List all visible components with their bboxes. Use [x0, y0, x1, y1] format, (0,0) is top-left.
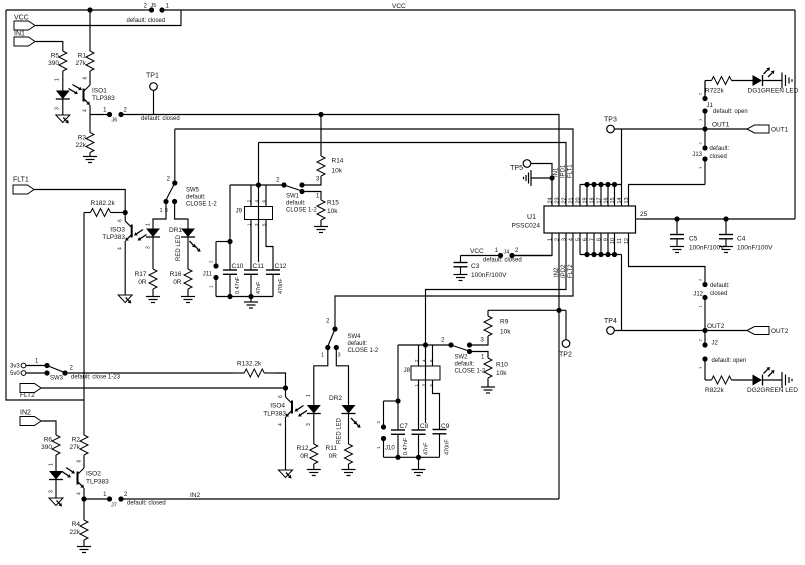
ground R15: [314, 221, 328, 233]
ground return ISO1 LED: [56, 115, 70, 124]
svg-text:TP3: TP3: [604, 117, 617, 124]
wire pin12 to J12: [629, 233, 706, 285]
svg-text:RED LED: RED LED: [176, 234, 182, 261]
wire emitter to J6: [90, 114, 108, 116]
wire pin13: [629, 185, 706, 207]
svg-text:3: 3: [146, 246, 152, 249]
jumper J4: [483, 248, 522, 264]
wire ISO1 emitter down: [89, 105, 91, 115]
pin 1 label ISO1 LED: [55, 78, 61, 81]
svg-text:IN1: IN1: [14, 31, 25, 38]
svg-text:15: 15: [610, 197, 616, 203]
svg-text:R6: R6: [44, 437, 53, 444]
svg-text:12: 12: [624, 238, 630, 244]
connector J10: [376, 401, 398, 457]
svg-text:11: 11: [617, 238, 623, 244]
label net OUT1: [712, 122, 730, 129]
svg-text:DR2: DR2: [329, 395, 342, 402]
svg-text:TLP383: TLP383: [102, 234, 125, 241]
svg-text:2: 2: [441, 338, 445, 344]
wire FLT2 tag to ISO4: [41, 387, 286, 389]
opto light arrows ISO4: [295, 406, 308, 417]
jumper J7: [103, 492, 166, 509]
svg-text:R11: R11: [326, 445, 338, 452]
ground R17: [146, 289, 160, 303]
svg-text:2: 2: [515, 248, 519, 254]
transistor ISO2 phototransistor: [77, 460, 85, 496]
wire VCC tag to top rail: [35, 10, 181, 26]
svg-text:C5: C5: [689, 236, 698, 243]
label net IN1: [554, 167, 560, 177]
jumper J2: [698, 331, 747, 370]
wire J8 pin1 to C8: [418, 380, 420, 430]
svg-text:23: 23: [555, 197, 561, 203]
svg-text:19: 19: [583, 197, 589, 203]
svg-text:CLOSE 1-2: CLOSE 1-2: [348, 348, 379, 354]
svg-text:C4: C4: [737, 236, 746, 243]
svg-text:J5: J5: [151, 3, 157, 9]
svg-text:default:: default:: [455, 362, 475, 368]
svg-text:DG1GREEN LED: DG1GREEN LED: [748, 88, 799, 95]
ground R12: [307, 465, 321, 476]
svg-text:4: 4: [83, 109, 89, 112]
svg-text:18: 18: [590, 197, 596, 203]
svg-text:100nF/100V: 100nF/100V: [737, 245, 773, 252]
wire SW1 pin3 to R14: [302, 177, 321, 185]
wire U1 pin24 TP5 net: [551, 178, 553, 206]
svg-text:default: closed: default: closed: [141, 116, 180, 122]
svg-text:8: 8: [597, 238, 603, 241]
capacitor C11: [244, 263, 264, 297]
svg-text:R5: R5: [51, 53, 60, 60]
svg-text:2: 2: [326, 319, 330, 325]
label net FLT1: [568, 164, 574, 178]
svg-text:J8: J8: [404, 368, 411, 374]
label net IPD1: [561, 164, 567, 178]
wire SW5 feed: [174, 129, 176, 181]
wire IPD2 through J8: [425, 345, 427, 423]
wire J8 pin6 stub: [432, 345, 434, 366]
jumper J13: [692, 129, 729, 169]
wire cap ground rail bottom: [384, 455, 440, 460]
wire J9 pin6 stub: [265, 185, 267, 207]
svg-text:6: 6: [583, 238, 589, 241]
resistor R17: [135, 269, 157, 289]
svg-text:TP4: TP4: [604, 318, 617, 325]
svg-text:OUT1: OUT1: [771, 127, 789, 134]
svg-text:16: 16: [604, 197, 610, 203]
resistor R10: [484, 358, 508, 378]
wire pin3 IPD2: [426, 233, 567, 345]
svg-text:TLP383: TLP383: [263, 411, 286, 418]
junction ISO4 collector: [283, 385, 288, 390]
wire SW2 pin1 to R10: [470, 352, 489, 359]
wire pin1 VCC: [514, 233, 552, 256]
ground C8 rail: [412, 457, 426, 475]
wire C10 feed: [229, 185, 231, 270]
svg-text:ISO3: ISO3: [110, 227, 125, 234]
svg-text:47nF: 47nF: [424, 442, 430, 455]
label ISO4: [263, 403, 286, 418]
wire pin4 FLT2: [335, 233, 573, 327]
svg-text:4: 4: [278, 423, 284, 426]
svg-text:ISO4: ISO4: [270, 403, 285, 410]
svg-text:closed: closed: [710, 291, 727, 297]
label net IPD2: [561, 264, 567, 278]
wire ISO4 emitter down: [285, 417, 287, 470]
node VCC input tag: [14, 15, 35, 31]
switch SW4: [321, 319, 379, 359]
diode DR2 RED LED: [329, 395, 361, 444]
diode DG1 GREEN LED: [748, 68, 799, 95]
svg-text:R12: R12: [297, 445, 309, 452]
svg-text:DG2GREEN LED: DG2GREEN LED: [747, 387, 798, 394]
wire J4 to pin1: [514, 255, 553, 257]
wire IN2 net long: [123, 498, 559, 500]
svg-text:13: 13: [624, 197, 630, 203]
wire cap ground rail top: [216, 294, 273, 299]
junction J10 tap: [395, 398, 400, 403]
wire FLT1 net to pin22: [259, 143, 567, 207]
node IN2 input tag: [20, 410, 41, 426]
svg-text:1: 1: [49, 463, 55, 466]
wire pin14 to OUT1 net: [621, 129, 623, 206]
svg-text:closed: closed: [710, 154, 727, 160]
svg-text:default: close 1-23: default: close 1-23: [71, 375, 121, 381]
svg-text:FLT2: FLT2: [20, 392, 35, 399]
svg-text:OUT1: OUT1: [712, 122, 730, 129]
svg-text:CLOSE 1-2: CLOSE 1-2: [455, 369, 486, 375]
ground earth TP5: [524, 170, 553, 186]
svg-text:default: closed: default: closed: [127, 18, 166, 24]
svg-text:R16: R16: [170, 271, 182, 278]
svg-text:R15: R15: [327, 200, 339, 207]
jumper J12: [693, 278, 730, 331]
capacitor C10: [223, 263, 244, 297]
svg-text:1: 1: [160, 208, 163, 214]
switch SW1: [276, 177, 320, 214]
svg-text:470nF: 470nF: [445, 439, 451, 455]
svg-text:25: 25: [640, 211, 648, 218]
svg-text:3: 3: [562, 238, 568, 241]
junction R9 at pin2 line: [556, 308, 561, 313]
wire C7 feed: [397, 345, 399, 430]
svg-text:J13: J13: [692, 152, 702, 158]
svg-text:390: 390: [48, 60, 59, 67]
wire R1 to ISO1 collector: [89, 71, 91, 85]
svg-text:1: 1: [548, 238, 554, 241]
wire J8 top net: [398, 344, 451, 346]
svg-text:1: 1: [376, 446, 381, 449]
ground R16: [181, 289, 195, 303]
wire ISO2 emitter down: [83, 488, 85, 499]
ground C11 rail: [244, 297, 258, 309]
svg-text:default: open: default: open: [712, 358, 747, 364]
svg-text:3v3: 3v3: [10, 364, 20, 370]
svg-text:0R: 0R: [300, 453, 309, 460]
junction FLT1 at J9: [256, 182, 261, 187]
pin 25 stub: [636, 211, 648, 219]
svg-text:SW5: SW5: [186, 188, 200, 194]
svg-text:10k: 10k: [327, 208, 338, 215]
svg-text:24: 24: [548, 197, 554, 203]
node VCC label: [392, 3, 406, 10]
svg-text:IN2: IN2: [190, 492, 201, 499]
svg-text:100nF/100V: 100nF/100V: [471, 272, 507, 279]
svg-text:IN1: IN1: [554, 167, 560, 177]
svg-text:3: 3: [481, 338, 485, 344]
svg-text:2: 2: [698, 339, 703, 342]
ground R4: [77, 541, 91, 553]
wire VCC top rail right of J5: [165, 9, 796, 11]
wire top bus pins: [580, 185, 615, 207]
junction bottom bus dots: [584, 252, 617, 257]
resistor R6: [41, 434, 60, 456]
junction IPD2 at J8: [423, 342, 428, 347]
svg-text:R4: R4: [72, 521, 81, 528]
wire J9 pin5 to C12: [266, 220, 273, 271]
svg-text:J2: J2: [712, 341, 719, 347]
wire SW2 pin3 to R9: [470, 336, 489, 345]
wire FLT1 through J9: [258, 143, 260, 263]
svg-text:10k: 10k: [500, 329, 511, 336]
ground C3: [454, 275, 468, 281]
svg-text:17: 17: [597, 197, 603, 203]
wire VCC top rail left of J5: [6, 9, 149, 11]
svg-text:TP2: TP2: [559, 352, 572, 359]
node IN1 input tag: [14, 31, 35, 47]
svg-text:10k: 10k: [496, 370, 507, 377]
svg-text:default:: default:: [710, 283, 730, 289]
svg-text:SW3: SW3: [50, 376, 64, 382]
ground R3: [83, 153, 97, 163]
svg-text:2: 2: [144, 4, 148, 10]
svg-text:1: 1: [209, 285, 214, 288]
wire SW5 pin1 to ISO3 LED: [153, 202, 166, 229]
svg-text:C11: C11: [253, 263, 265, 270]
label ISO2: [86, 471, 109, 486]
svg-text:default: closed: default: closed: [127, 501, 166, 507]
resistor R15: [317, 199, 339, 221]
wire SW4 pin3 to DR2: [336, 348, 348, 406]
svg-text:2: 2: [698, 278, 703, 281]
svg-text:R1: R1: [78, 53, 87, 60]
wire SW5 net to pin21: [175, 129, 573, 206]
wire left rail to R18/R2: [83, 213, 85, 435]
svg-text:5: 5: [429, 384, 434, 387]
wire J13 to pin13: [704, 162, 706, 185]
svg-text:100nF/100V: 100nF/100V: [689, 245, 725, 252]
svg-text:0R: 0R: [138, 279, 147, 286]
svg-text:VCC: VCC: [392, 3, 406, 10]
transistor ISO1 phototransistor: [83, 77, 91, 113]
svg-text:TP1: TP1: [146, 73, 159, 80]
resistor R12: [297, 443, 318, 465]
wire J9 pin2 stub: [250, 185, 252, 207]
svg-text:4: 4: [118, 247, 124, 250]
wire left rail: [6, 10, 84, 400]
svg-text:1: 1: [316, 194, 320, 200]
svg-text:27k: 27k: [76, 60, 87, 67]
svg-text:ISO1: ISO1: [92, 88, 107, 95]
svg-text:1: 1: [321, 353, 324, 359]
wire TP3 to OUT1: [614, 128, 747, 130]
wire R2 to ISO2 collector: [83, 456, 85, 468]
svg-text:R10: R10: [496, 362, 508, 369]
wire pin25 VCC rail: [644, 218, 795, 220]
svg-text:default:: default:: [710, 146, 730, 152]
svg-text:2: 2: [167, 177, 171, 183]
wire R9 top to IN2 net: [488, 309, 566, 311]
wire J9 pin1 to C11: [250, 220, 252, 271]
svg-text:0R: 0R: [173, 279, 182, 286]
diode ISO1 input LED: [56, 71, 70, 115]
svg-text:C10: C10: [232, 263, 244, 270]
svg-text:IN2: IN2: [20, 410, 31, 417]
svg-text:27k: 27k: [70, 444, 81, 451]
wire J8 pin5 to C9: [433, 380, 440, 430]
wire ISO3 emitter down: [124, 241, 126, 295]
jumper J6: [103, 108, 180, 124]
svg-text:390: 390: [41, 444, 52, 451]
wire pin11-bus to TP4 net: [621, 255, 623, 331]
resistor R3: [76, 115, 94, 154]
resistor R4: [70, 499, 88, 541]
svg-text:CLOSE 1-2: CLOSE 1-2: [186, 202, 217, 208]
svg-text:J9: J9: [236, 209, 243, 215]
wire bottom bus pins: [580, 233, 615, 255]
svg-text:R17: R17: [135, 271, 147, 278]
svg-text:1: 1: [495, 248, 499, 254]
diode DG2 GREEN LED: [747, 367, 798, 394]
svg-text:10k: 10k: [332, 168, 343, 175]
svg-text:0.47nF: 0.47nF: [235, 276, 241, 294]
svg-text:1: 1: [103, 108, 107, 114]
junction J11 tap: [227, 239, 232, 244]
opto light arrows ISO3: [134, 230, 147, 241]
wire SW3 to R13: [68, 372, 234, 374]
wire FLT1 tag to ISO3: [34, 190, 125, 211]
wire R13 to ISO4: [275, 373, 286, 386]
svg-text:2: 2: [124, 108, 128, 114]
svg-text:J7: J7: [111, 503, 117, 509]
svg-text:J11: J11: [203, 272, 213, 278]
diode DR1 RED LED: [169, 227, 201, 269]
svg-text:1: 1: [146, 223, 152, 226]
svg-text:2: 2: [698, 142, 703, 145]
resistor R18 2.2k: [84, 200, 125, 217]
node TP2: [559, 310, 572, 358]
wire IPD1 net J6 to pin23: [123, 115, 559, 207]
capacitor C12: [266, 263, 287, 297]
svg-text:RED LED: RED LED: [337, 417, 343, 444]
node TP3: [604, 117, 617, 133]
wire bottom bus: [580, 254, 622, 256]
resistor R13 2.2k: [234, 361, 276, 378]
switch SW2: [441, 338, 486, 375]
svg-text:1: 1: [103, 492, 107, 498]
svg-text:0.47nF: 0.47nF: [403, 437, 409, 455]
svg-text:22k: 22k: [70, 529, 81, 536]
junction ISO2 emitter: [81, 496, 86, 501]
svg-text:22k: 22k: [76, 142, 87, 149]
wire SW5 pin3 to DR1: [175, 202, 188, 229]
label net IN2 wire: [190, 492, 201, 499]
svg-text:6: 6: [77, 460, 83, 463]
junction top bus dots: [584, 182, 617, 187]
svg-text:1: 1: [698, 166, 703, 169]
svg-text:0R: 0R: [329, 453, 338, 460]
pin 3 label ISO1 LED: [55, 107, 61, 110]
diode ISO4 input LED: [306, 394, 321, 443]
svg-text:SW4: SW4: [348, 334, 362, 340]
node VCC pin1 label: [470, 248, 484, 255]
svg-text:R2: R2: [72, 437, 81, 444]
svg-text:IPD1: IPD1: [561, 164, 567, 178]
svg-text:2: 2: [124, 492, 128, 498]
svg-text:J4: J4: [504, 250, 510, 256]
svg-text:2: 2: [376, 421, 381, 424]
svg-text:J10: J10: [385, 446, 395, 452]
connector J9: [236, 200, 273, 227]
svg-text:3: 3: [306, 423, 312, 426]
junction OUT1: [702, 126, 707, 131]
junction C5: [674, 216, 679, 221]
svg-text:FLT1: FLT1: [568, 164, 574, 178]
svg-text:VCC: VCC: [470, 248, 484, 255]
svg-text:1: 1: [55, 78, 61, 81]
wire SW4 pin1 to ISO4 LED: [314, 348, 328, 406]
svg-text:R132.2k: R132.2k: [237, 361, 262, 368]
svg-text:10: 10: [610, 238, 616, 244]
resistor R8: [705, 362, 753, 395]
svg-text:TLP383: TLP383: [92, 95, 115, 102]
ground return ISO2: [49, 498, 63, 507]
svg-text:J6: J6: [112, 118, 118, 124]
wire IN2 tag to R6: [41, 421, 56, 434]
svg-text:6: 6: [118, 219, 124, 222]
node FLT2 input tag: [20, 384, 41, 400]
svg-text:6: 6: [278, 395, 284, 398]
wire SW1 pin1 to R15: [302, 192, 321, 200]
svg-text:C8: C8: [420, 423, 429, 430]
svg-text:9: 9: [604, 238, 610, 241]
svg-text:R722k: R722k: [705, 88, 725, 95]
diode ISO2 input LED: [49, 456, 64, 498]
connector J11: [203, 242, 230, 297]
ground C5: [670, 247, 684, 253]
svg-text:3: 3: [316, 177, 320, 183]
svg-text:5: 5: [576, 238, 582, 241]
capacitor C9: [433, 423, 451, 457]
svg-text:default:: default:: [348, 341, 368, 347]
svg-text:TP5: TP5: [510, 165, 523, 172]
label net OUT2: [707, 323, 725, 330]
resistor R5: [48, 51, 67, 71]
svg-text:C12: C12: [275, 263, 287, 270]
svg-text:3: 3: [55, 107, 61, 110]
svg-text:R822k: R822k: [705, 387, 725, 394]
switch SW3: [26, 359, 121, 382]
svg-text:DR1: DR1: [169, 227, 182, 234]
svg-text:6: 6: [429, 359, 434, 362]
capacitor C7: [391, 423, 409, 457]
wire TP5 to pin24: [531, 164, 552, 179]
junction TP5: [549, 175, 554, 180]
svg-text:2: 2: [276, 178, 280, 184]
svg-text:1: 1: [698, 305, 703, 308]
junction R14 tap: [318, 112, 323, 117]
